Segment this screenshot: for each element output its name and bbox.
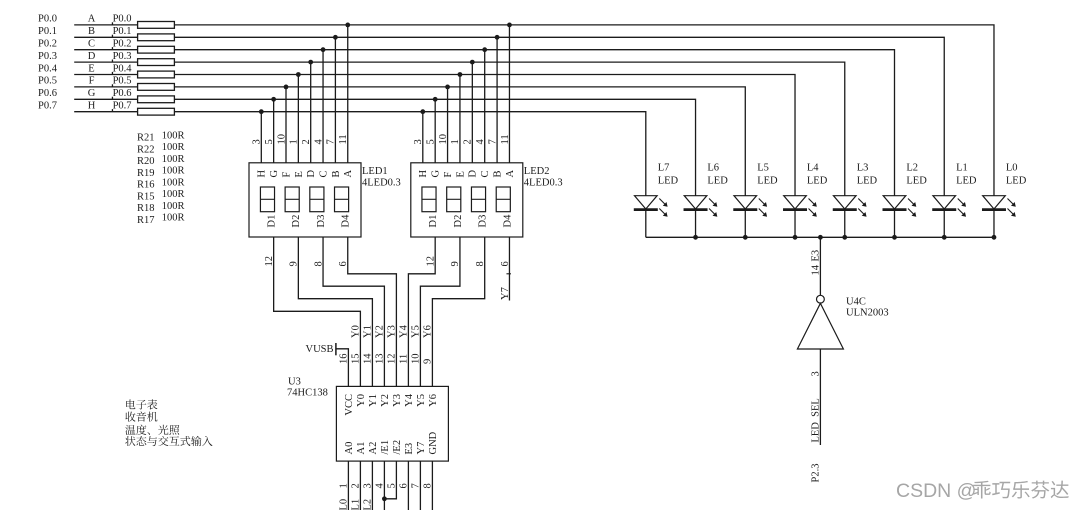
svg-text:2: 2 xyxy=(351,483,362,488)
pin number 10 of U3 xyxy=(411,354,422,365)
svg-text:P0.4: P0.4 xyxy=(113,63,133,74)
wire tap P0.1 to LED2 pin B xyxy=(496,37,498,163)
svg-text:L1: L1 xyxy=(956,163,968,174)
pin number 9 of LED1 xyxy=(289,261,300,266)
U3 pin name /E1 xyxy=(380,440,391,455)
svg-text:R16: R16 xyxy=(137,180,155,191)
LED1 pin name G xyxy=(269,170,280,178)
display LED1 4LED0.3 box xyxy=(249,163,361,237)
svg-text:Y7: Y7 xyxy=(416,442,427,455)
svg-text:A1: A1 xyxy=(356,442,367,455)
U3 pin name Y6 xyxy=(428,394,439,407)
LED2 pin name B xyxy=(493,170,504,177)
svg-text:1: 1 xyxy=(450,139,461,144)
wire P0.7 row to LED L7 column xyxy=(174,112,645,196)
U3 pin name Y7 xyxy=(416,442,427,455)
svg-text:L2: L2 xyxy=(906,163,918,174)
svg-text:P0.7: P0.7 xyxy=(38,101,57,112)
LED2 digit D3 xyxy=(471,187,485,212)
wire P0.1 row to LED L1 column xyxy=(174,37,944,195)
label L6 LED xyxy=(707,163,728,187)
wire tap P0.0 to LED2 pin A xyxy=(508,25,510,163)
wire P0.5 left segment xyxy=(74,86,137,88)
node G label xyxy=(88,88,96,99)
wire P0.2 left segment xyxy=(74,49,137,51)
svg-text:E3: E3 xyxy=(811,250,822,262)
junction P0.6 / LED2 xyxy=(433,97,438,102)
svg-text:H: H xyxy=(88,101,96,112)
svg-text:A2: A2 xyxy=(368,442,379,455)
svg-text:R17: R17 xyxy=(137,215,155,226)
wire U4C pin 3 net LED_SEL xyxy=(819,349,821,445)
pin number 13 of U3 xyxy=(375,354,386,365)
LED1 digit label D2 xyxy=(291,215,302,228)
svg-text:G: G xyxy=(88,88,96,99)
label L7 LED xyxy=(658,163,679,187)
watermark CSDN @乖巧乐芬达 xyxy=(896,480,1069,502)
wire tap P0.2 to LED1 pin C xyxy=(322,50,324,163)
junction bus / L5 xyxy=(743,235,748,240)
port P0.5 label xyxy=(38,76,57,87)
pin number 7 of U3 xyxy=(411,483,422,488)
label R21 100R xyxy=(137,130,184,143)
svg-text:P0.7: P0.7 xyxy=(113,101,132,112)
svg-text:100R: 100R xyxy=(162,130,185,141)
svg-text:/E2: /E2 xyxy=(392,440,403,455)
pin number 4 of U3 xyxy=(375,483,386,489)
power VUSB terminal xyxy=(336,343,349,386)
LED1 digit label D4 xyxy=(341,214,352,228)
svg-text:P0.4: P0.4 xyxy=(38,63,58,74)
net label L0 xyxy=(339,499,350,510)
net label P0.5 xyxy=(112,76,132,87)
svg-text:3: 3 xyxy=(413,139,424,144)
svg-text:LED: LED xyxy=(857,176,878,187)
LED1 digit label D3 xyxy=(316,215,327,228)
wire LED2.D1 (pin 12) to U3 Y4 xyxy=(408,237,435,386)
svg-text:7: 7 xyxy=(326,139,337,144)
svg-text:10: 10 xyxy=(438,134,449,145)
svg-text:100R: 100R xyxy=(162,177,185,188)
label LED1 4LED0.3 xyxy=(362,166,401,188)
svg-text:R22: R22 xyxy=(137,144,155,155)
net label Y5 xyxy=(411,325,422,338)
LED2 pin name G xyxy=(431,170,442,178)
label LED2 4LED0.3 xyxy=(524,166,563,188)
LED2 digit D1 xyxy=(422,187,436,212)
svg-text:Y4: Y4 xyxy=(404,393,415,407)
wire P0.0 row to LED L0 column xyxy=(174,25,994,196)
junction P0.3 / LED1 xyxy=(308,60,313,65)
label L5 LED xyxy=(757,163,778,187)
resistor R20 xyxy=(138,46,175,53)
port P0.6 label xyxy=(38,88,57,99)
net label E3 xyxy=(811,250,822,262)
svg-text:12: 12 xyxy=(426,256,437,267)
svg-text:LED: LED xyxy=(807,176,828,187)
wire U3 pin 2 xyxy=(359,461,361,510)
svg-text:100R: 100R xyxy=(162,142,185,153)
pin number 6 of LED1 xyxy=(338,261,349,266)
svg-text:100R: 100R xyxy=(162,213,185,224)
pin number 4 of LED2 xyxy=(475,139,486,145)
junction bus / L4 xyxy=(793,235,798,240)
pin number 8 of LED1 xyxy=(313,261,324,266)
junction P0.6 / LED1 xyxy=(271,97,276,102)
svg-text:1: 1 xyxy=(339,483,350,488)
node B label xyxy=(88,26,95,37)
LED L0 xyxy=(982,196,1016,238)
node D label xyxy=(88,51,96,62)
svg-text:D2: D2 xyxy=(453,215,464,228)
svg-text:P0.3: P0.3 xyxy=(113,51,132,62)
svg-text:H: H xyxy=(418,170,429,178)
wire bus to U4C pin 14 net E3 xyxy=(819,237,821,295)
svg-text:LED: LED xyxy=(1006,176,1027,187)
svg-text:P0.1: P0.1 xyxy=(38,26,57,37)
label VUSB xyxy=(305,344,333,355)
wire P0.4 row to LED L4 column xyxy=(174,75,795,196)
display LED2 4LED0.3 box xyxy=(411,163,523,237)
svg-text:D: D xyxy=(468,170,479,178)
wire tap P0.7 to LED2 pin H xyxy=(422,112,424,163)
U3 pin name E3 xyxy=(404,443,415,455)
LED1 pin name H xyxy=(257,170,268,178)
svg-text:H: H xyxy=(257,170,268,178)
svg-text:VCC: VCC xyxy=(344,394,355,416)
svg-text:6: 6 xyxy=(338,261,349,266)
junction P0.1 / LED2 xyxy=(495,35,500,40)
junction P0.1 / LED1 xyxy=(333,35,338,40)
wire U3 pin 4 xyxy=(383,461,385,510)
net label P0.2 xyxy=(112,39,132,50)
LED2 digit label D3 xyxy=(478,215,489,228)
svg-text:Y0: Y0 xyxy=(351,325,362,338)
pin number 10 of LED1 xyxy=(276,134,287,145)
svg-text:Y4: Y4 xyxy=(399,324,410,338)
svg-text:L6: L6 xyxy=(707,163,719,174)
svg-text:GND: GND xyxy=(428,431,439,454)
svg-text:LED2: LED2 xyxy=(524,166,550,177)
svg-text:Y3: Y3 xyxy=(387,325,398,338)
svg-text:G: G xyxy=(269,170,280,178)
pin number 7 of LED1 xyxy=(326,139,337,144)
pin number 1 of U3 xyxy=(339,483,350,488)
svg-text:C: C xyxy=(318,170,329,177)
svg-text:P0.0: P0.0 xyxy=(113,14,132,25)
net label P0.6 xyxy=(112,88,132,99)
svg-text:11: 11 xyxy=(500,134,511,144)
wire P0.3 left segment xyxy=(74,61,137,63)
svg-text:B: B xyxy=(88,26,95,37)
pin number 16 of U3 xyxy=(339,354,350,365)
svg-text:Y2: Y2 xyxy=(375,325,386,338)
svg-text:F: F xyxy=(89,76,95,87)
LED1 pin name C xyxy=(318,170,329,177)
label R17 100R xyxy=(137,213,184,226)
svg-text:L0: L0 xyxy=(339,499,350,510)
svg-text:15: 15 xyxy=(351,354,362,365)
port P0.4 label xyxy=(38,63,58,74)
svg-text:/E1: /E1 xyxy=(380,440,391,455)
svg-text:8: 8 xyxy=(313,261,324,266)
pin number 12 of LED1 xyxy=(264,256,275,267)
LED2 pin name H xyxy=(418,170,429,178)
port P0.1 label xyxy=(38,26,57,37)
svg-text:VUSB: VUSB xyxy=(305,344,333,355)
wire tap P0.4 to LED1 pin E xyxy=(297,75,299,163)
wire tap P0.7 to LED1 pin H xyxy=(260,112,262,163)
svg-text:D3: D3 xyxy=(316,215,327,228)
wire U3 pin 7 xyxy=(419,461,421,510)
pin number 12 of U3 xyxy=(387,354,398,365)
LED2 pin name A xyxy=(505,170,516,178)
LED L1 xyxy=(932,196,966,238)
junction P0.3 / LED2 xyxy=(470,60,475,65)
LED2 pin name F xyxy=(443,172,454,178)
svg-text:R19: R19 xyxy=(137,168,155,179)
junction P0.5 / LED2 xyxy=(445,85,450,90)
svg-text:Y0: Y0 xyxy=(356,394,367,407)
net label P0.4 xyxy=(112,63,133,74)
label R22 100R xyxy=(137,142,184,155)
pin number 11 of LED2 xyxy=(500,134,511,144)
svg-text:Y7: Y7 xyxy=(500,287,511,300)
pin number 5 of LED1 xyxy=(264,139,275,144)
svg-text:Y5: Y5 xyxy=(411,325,422,338)
svg-text:L2: L2 xyxy=(363,499,374,510)
svg-text:D1: D1 xyxy=(267,215,278,228)
svg-text:P0.0: P0.0 xyxy=(38,14,57,25)
svg-text:Y6: Y6 xyxy=(428,394,439,407)
svg-text:E: E xyxy=(88,63,94,74)
U3 pin name A1 xyxy=(356,442,367,455)
svg-text:74HC138: 74HC138 xyxy=(287,388,328,399)
svg-text:L5: L5 xyxy=(757,163,769,174)
junction P0.4 / LED2 xyxy=(458,72,463,77)
svg-text:Y3: Y3 xyxy=(392,394,403,407)
svg-text:100R: 100R xyxy=(162,201,185,212)
svg-text:R20: R20 xyxy=(137,156,155,167)
wire P0.4 left segment xyxy=(74,74,137,76)
note text block (Chinese) xyxy=(125,399,212,446)
svg-text:12: 12 xyxy=(264,256,275,267)
port P0.0 label xyxy=(38,14,57,25)
svg-text:L7: L7 xyxy=(658,163,670,174)
svg-text:Y5: Y5 xyxy=(416,394,427,407)
svg-text:B: B xyxy=(331,170,342,177)
svg-text:B: B xyxy=(493,170,504,177)
svg-text:2: 2 xyxy=(463,139,474,144)
svg-text:R18: R18 xyxy=(137,203,155,214)
LED2 digit label D2 xyxy=(453,215,464,228)
wire tap P0.5 to LED1 pin F xyxy=(285,87,287,163)
LED L4 xyxy=(783,196,817,238)
net label Y0 xyxy=(351,325,362,338)
junction P0.0 / LED2 xyxy=(507,23,512,28)
svg-text:Y1: Y1 xyxy=(363,325,374,338)
svg-text:CSDN @: CSDN @ xyxy=(896,480,976,502)
wire tap P0.4 to LED2 pin E xyxy=(459,75,461,163)
wire P0.5 row to LED L5 column xyxy=(174,87,745,196)
wire U3 pin 3 xyxy=(371,461,373,510)
svg-text:3: 3 xyxy=(363,483,374,488)
svg-text:10: 10 xyxy=(411,354,422,365)
svg-text:D: D xyxy=(88,51,96,62)
svg-text:Y2: Y2 xyxy=(380,394,391,407)
wire U3 pin 6 xyxy=(407,461,409,510)
label U3 74HC138 xyxy=(287,376,328,398)
label L2 LED xyxy=(906,163,927,187)
svg-text:D3: D3 xyxy=(478,215,489,228)
pin number 8 of LED2 xyxy=(475,261,486,266)
net label Y2 xyxy=(375,325,386,338)
svg-text:3: 3 xyxy=(811,371,822,376)
U3 pin name Y0 xyxy=(356,394,367,407)
junction P0.7 / LED1 xyxy=(259,109,264,114)
resistor R17 xyxy=(138,108,175,115)
pin number 4 of LED1 xyxy=(313,139,324,145)
svg-text:G: G xyxy=(431,170,442,178)
wire P0.3 row to LED L3 column xyxy=(174,62,844,196)
net label Y3 xyxy=(387,325,398,338)
port P2.3 xyxy=(811,464,822,483)
svg-text:6: 6 xyxy=(500,261,511,266)
port P0.7 label xyxy=(38,101,57,112)
label R20 100R xyxy=(137,154,184,167)
svg-text:LED: LED xyxy=(707,176,728,187)
svg-text:3: 3 xyxy=(252,139,263,144)
net label Y6 xyxy=(423,325,434,338)
pin number 8 of U3 xyxy=(423,483,434,488)
wire tap P0.6 to LED1 pin G xyxy=(273,99,275,163)
LED1 digit D2 xyxy=(285,187,299,212)
svg-text:14: 14 xyxy=(363,353,374,364)
junction U3 pins 4/5 xyxy=(382,496,387,501)
wire LED1.D1 (pin 12) to U3 Y0 xyxy=(274,237,361,386)
buffer U4C ULN2003 (inverter symbol) xyxy=(797,295,843,349)
wire LED1.D3 (pin 8) to U3 Y2 xyxy=(323,237,384,386)
junction bus / L1 xyxy=(942,235,947,240)
wire P0.1 left segment xyxy=(74,36,137,38)
svg-text:LED: LED xyxy=(757,176,778,187)
U3 pin name /E2 xyxy=(392,440,403,455)
net label P0.0 xyxy=(112,14,132,25)
wire tap P0.1 to LED1 pin B xyxy=(334,37,336,163)
resistor R18 xyxy=(138,96,175,103)
svg-text:P0.2: P0.2 xyxy=(113,39,132,50)
net label L2 xyxy=(363,499,374,510)
port P0.2 label xyxy=(38,39,57,50)
junction P0.4 / LED1 xyxy=(296,72,301,77)
junction bus / L0 xyxy=(992,235,997,240)
LED L2 xyxy=(883,196,917,238)
svg-text:2: 2 xyxy=(301,139,312,144)
pin number 11 of LED1 xyxy=(338,134,349,144)
wire P0.6 row to LED L6 column xyxy=(174,99,695,195)
svg-text:R15: R15 xyxy=(137,191,155,202)
wire tap P0.3 to LED1 pin D xyxy=(310,62,312,163)
svg-text:4: 4 xyxy=(475,139,486,145)
svg-text:E: E xyxy=(455,171,466,177)
LED2 pin name E xyxy=(455,171,466,177)
svg-text:LED SEL: LED SEL xyxy=(811,398,822,442)
LED2 pin name D xyxy=(468,170,479,178)
LED L6 xyxy=(684,196,718,238)
svg-text:A: A xyxy=(88,14,96,25)
svg-text:100R: 100R xyxy=(162,154,185,165)
node E label xyxy=(88,63,94,74)
svg-text:Y6: Y6 xyxy=(423,325,434,338)
svg-text:A: A xyxy=(343,170,354,178)
label R19 100R xyxy=(137,166,184,179)
wire LED cathode bus (net E3) xyxy=(646,236,994,238)
svg-text:7: 7 xyxy=(487,139,498,144)
U3 pin name Y4 xyxy=(404,393,415,407)
LED L3 xyxy=(833,196,867,238)
U3 pin name VCC xyxy=(344,394,355,416)
resistor R15 xyxy=(138,84,175,91)
svg-text:5: 5 xyxy=(264,139,275,144)
IC U3 74HC138 box xyxy=(336,386,448,461)
pin number 3 of LED2 xyxy=(413,139,424,144)
svg-text:P0.5: P0.5 xyxy=(38,76,57,87)
junction bus / L3 xyxy=(842,235,847,240)
svg-text:4LED0.3: 4LED0.3 xyxy=(362,178,401,189)
svg-text:LED: LED xyxy=(658,176,679,187)
pin number 2 of LED2 xyxy=(463,139,474,144)
label L3 LED xyxy=(857,163,878,187)
svg-text:F: F xyxy=(443,172,454,178)
svg-text:D: D xyxy=(306,170,317,178)
svg-text:C: C xyxy=(480,170,491,177)
U3 pin name Y3 xyxy=(392,394,403,407)
svg-text:L4: L4 xyxy=(807,163,819,174)
svg-text:A0: A0 xyxy=(344,442,355,455)
svg-text:11: 11 xyxy=(338,134,349,144)
svg-text:4: 4 xyxy=(313,139,324,145)
label R16 100R xyxy=(137,177,184,190)
port P0.3 label xyxy=(38,51,57,62)
svg-text:11: 11 xyxy=(399,354,410,364)
pin number 6 of U3 xyxy=(399,483,410,488)
label L4 LED xyxy=(807,163,828,187)
net label P0.7 xyxy=(112,101,132,112)
svg-text:D4: D4 xyxy=(341,214,352,228)
svg-text:L0: L0 xyxy=(1006,163,1018,174)
LED2 digit D2 xyxy=(447,187,461,212)
pin number 3 of U3 xyxy=(363,483,374,488)
svg-text:D1: D1 xyxy=(428,215,439,228)
junction P0.2 / LED2 xyxy=(482,47,487,52)
label R15 100R xyxy=(137,189,184,202)
junction bus / U4C xyxy=(818,235,823,240)
wire LED2.D2 (pin 9) to U3 Y5 xyxy=(420,237,460,386)
svg-text:L3: L3 xyxy=(857,163,869,174)
svg-text:F: F xyxy=(281,172,292,178)
LED2 digit D4 xyxy=(496,187,510,212)
wire U3 pin 8 xyxy=(431,461,433,510)
svg-text:R21: R21 xyxy=(137,133,155,144)
pin number 9 of U3 xyxy=(423,359,434,364)
LED2 digit label D4 xyxy=(502,214,513,228)
LED2 pin name C xyxy=(480,170,491,177)
net label Y7 xyxy=(500,287,511,300)
wire U3 pin 5 /E2 tied to pin 4 xyxy=(384,461,396,499)
net label L1 xyxy=(351,499,362,510)
LED L7 xyxy=(634,196,668,238)
svg-text:12: 12 xyxy=(387,354,398,365)
